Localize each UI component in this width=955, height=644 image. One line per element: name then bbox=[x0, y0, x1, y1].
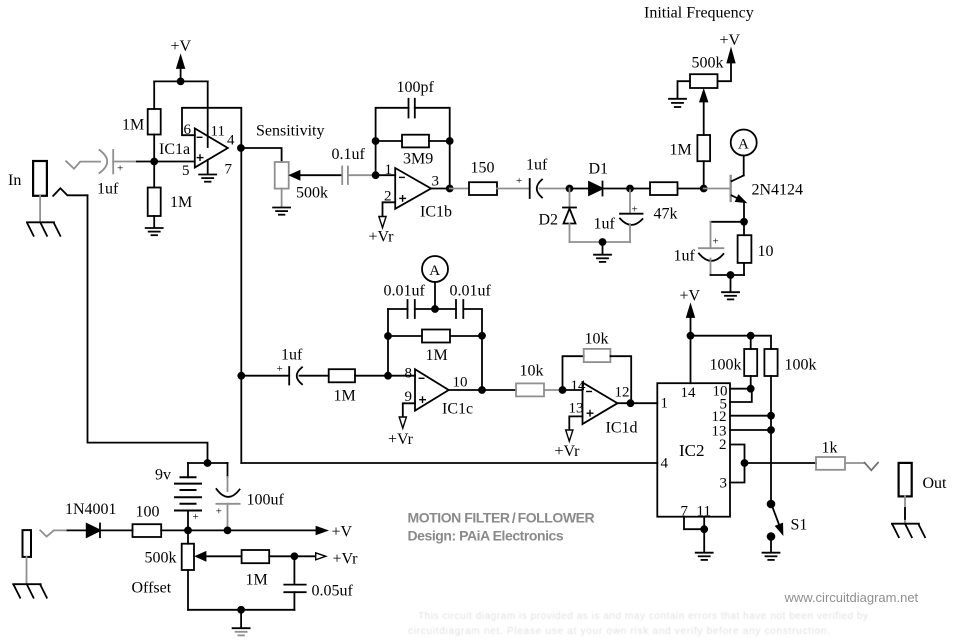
wire power jack stem bbox=[26, 557, 28, 584]
svg-text:+Vr: +Vr bbox=[388, 431, 414, 448]
wire plug hook In bbox=[66, 161, 100, 168]
svg-text:+Vr: +Vr bbox=[333, 551, 359, 568]
svg-text:14: 14 bbox=[571, 378, 587, 394]
svg-text:4: 4 bbox=[661, 456, 669, 472]
svg-text:100uf: 100uf bbox=[247, 492, 285, 509]
svg-text:500k: 500k bbox=[145, 550, 177, 567]
svg-text:Sensitivity: Sensitivity bbox=[256, 123, 324, 140]
wire 1M to input node bbox=[153, 135, 155, 162]
wire IC1c feedback left riser bbox=[387, 309, 389, 376]
op-amp IC1a bbox=[159, 122, 235, 179]
wire feedback right to output bbox=[449, 141, 451, 189]
svg-text:Initial Frequency: Initial Frequency bbox=[644, 5, 754, 22]
svg-text:IC1c: IC1c bbox=[442, 401, 473, 418]
svg-text:MOTION FILTER / FOLLOWER: MOTION FILTER / FOLLOWER bbox=[408, 510, 595, 526]
node In-label bbox=[8, 172, 21, 189]
svg-text:4: 4 bbox=[227, 133, 235, 149]
ground chassis power bbox=[13, 584, 47, 598]
node D2 junction bbox=[567, 186, 573, 192]
node offset ground bbox=[238, 607, 244, 613]
wiper arrow sensitivity bbox=[291, 171, 341, 179]
wire 150 to 1uf bbox=[497, 188, 530, 190]
wire pin7 to ground bbox=[207, 160, 209, 174]
ground earth IC1a pin7 bbox=[199, 175, 216, 182]
node 100uf bottom bbox=[225, 527, 231, 533]
potentiometer R 500k Offset bbox=[132, 530, 195, 609]
svg-text:3M9: 3M9 bbox=[403, 151, 433, 168]
wire jack stem bbox=[39, 196, 41, 222]
svg-text:+V: +V bbox=[680, 287, 701, 304]
svg-text:This circuit diagram is provid: This circuit diagram is provided as is a… bbox=[418, 611, 868, 622]
resistor R 1M bottom bbox=[148, 162, 193, 217]
jack J1 In bbox=[33, 161, 47, 196]
meter A filter bbox=[422, 256, 448, 309]
arrow +Vr reference bbox=[294, 551, 358, 568]
resistor R 10k series bbox=[516, 363, 563, 397]
capacitor C 0.05uf bbox=[284, 556, 353, 610]
resistor R 100 bbox=[133, 503, 189, 537]
svg-text:2N4124: 2N4124 bbox=[752, 182, 804, 199]
node ghost artifacts bbox=[408, 611, 868, 637]
resistor R 3M9 bbox=[376, 135, 450, 168]
node feedback right bbox=[479, 333, 485, 339]
svg-text:Design: PAiA Electronics: Design: PAiA Electronics bbox=[408, 528, 564, 544]
capacitor C 1uf coupling bbox=[516, 157, 570, 199]
svg-text:1uf: 1uf bbox=[281, 347, 303, 364]
wiper arrow initial frequency bbox=[700, 91, 707, 135]
wire pin13 to Vr arrow bbox=[569, 416, 582, 429]
IC U2 IC2 bbox=[657, 383, 730, 519]
wire offset bottom rail bbox=[188, 609, 294, 611]
wire pin2 to Vr arrow bbox=[383, 202, 396, 216]
svg-text:10k: 10k bbox=[585, 330, 609, 347]
node pin11 ground junction bbox=[701, 526, 707, 532]
node 3M9 right bbox=[447, 138, 453, 144]
ground earth sensitivity bbox=[273, 208, 290, 215]
svg-text:+: + bbox=[193, 511, 199, 523]
svg-text:1k: 1k bbox=[822, 439, 838, 456]
svg-text:11: 11 bbox=[211, 124, 225, 140]
svg-text:+: + bbox=[216, 506, 222, 518]
node IC1b input bbox=[373, 172, 379, 178]
wire pin11 +V drop bbox=[207, 81, 209, 147]
op-amp IC1b bbox=[384, 162, 452, 220]
diode D3 1N4001 bbox=[65, 501, 133, 537]
resistor R 1k bbox=[816, 439, 865, 470]
node meter tap bbox=[432, 306, 438, 312]
svg-text:1M: 1M bbox=[334, 388, 356, 405]
resistor R 100k left bbox=[710, 336, 758, 389]
svg-text:500k: 500k bbox=[296, 185, 328, 202]
svg-text:S1: S1 bbox=[791, 517, 808, 534]
svg-text:1N4001: 1N4001 bbox=[65, 501, 117, 518]
node IC1d output bbox=[628, 400, 634, 406]
capacitor C 0.01uf left bbox=[384, 283, 436, 319]
wire D2 bottom rail bbox=[570, 241, 631, 243]
svg-text:500k: 500k bbox=[692, 54, 724, 71]
node IC1b output bbox=[447, 186, 453, 192]
op-amp IC1c bbox=[405, 365, 474, 417]
svg-text:100pf: 100pf bbox=[397, 79, 435, 96]
node +V rail bbox=[178, 78, 184, 84]
arrow +Vr IC1c bbox=[388, 417, 414, 448]
jack J3 power input bbox=[23, 530, 32, 557]
wire cap to IC1a input bbox=[113, 161, 195, 163]
svg-text:1uf: 1uf bbox=[594, 216, 616, 233]
potentiometer R 500k Sensitivity bbox=[256, 123, 328, 202]
capacitor C 0.01uf right bbox=[435, 283, 492, 391]
svg-text:10k: 10k bbox=[520, 363, 544, 380]
node IC1c input bbox=[385, 373, 391, 379]
svg-text:IC1d: IC1d bbox=[606, 419, 638, 436]
svg-text:1M: 1M bbox=[426, 347, 448, 364]
svg-text:IC1a: IC1a bbox=[159, 141, 190, 158]
svg-text:14: 14 bbox=[681, 385, 697, 401]
wire out jack stem bbox=[904, 496, 906, 523]
wire pin5 stub bbox=[730, 390, 752, 403]
resistor R 1M top bbox=[122, 109, 161, 135]
node ground D2 rail bbox=[600, 239, 606, 245]
svg-text:1M: 1M bbox=[670, 142, 692, 159]
battery B1 9v bbox=[155, 463, 201, 530]
resistor R 47k bbox=[630, 182, 704, 222]
wire IC1a feedback loop bbox=[182, 108, 241, 148]
svg-text:47k: 47k bbox=[654, 206, 678, 223]
node pin13 junction bbox=[768, 427, 774, 433]
node IC1a output bbox=[238, 145, 244, 151]
svg-text:1: 1 bbox=[661, 396, 669, 412]
svg-text:100k: 100k bbox=[785, 357, 817, 374]
wire pin9 to Vr arrow bbox=[403, 403, 415, 416]
node IC1c output bbox=[479, 387, 485, 393]
svg-text:1M: 1M bbox=[170, 194, 192, 211]
wire left bus IC1a output down bbox=[240, 148, 242, 463]
ground chassis In bbox=[27, 222, 60, 236]
wire battery top rail bbox=[188, 462, 228, 464]
node IC1a input junction bbox=[151, 159, 157, 165]
wire pin10 stub bbox=[730, 388, 751, 390]
capacitor C 1uf input bbox=[97, 150, 123, 198]
node 3M9 left bbox=[373, 138, 379, 144]
svg-text:A: A bbox=[738, 136, 749, 152]
wire input node to pin1 bbox=[376, 174, 396, 176]
svg-text:0.05uf: 0.05uf bbox=[312, 583, 354, 600]
ground earth D2 rail bbox=[594, 242, 611, 262]
capacitor C 1uf IC1c input bbox=[241, 347, 328, 385]
svg-text:0.01uf: 0.01uf bbox=[450, 283, 492, 300]
node output junction bbox=[742, 460, 748, 466]
svg-text:circuitdiagram net. Please use: circuitdiagram net. Please use at your o… bbox=[408, 626, 830, 637]
ground earth offset bbox=[233, 610, 250, 636]
svg-text:0.01uf: 0.01uf bbox=[384, 283, 426, 300]
svg-text:+V: +V bbox=[171, 38, 192, 55]
wire output to sensitivity pot bbox=[241, 148, 282, 162]
ground earth emitter bbox=[722, 275, 739, 299]
wire pin12 stub bbox=[730, 415, 771, 417]
node switch power rail bbox=[205, 460, 211, 466]
wire pin13 stub bbox=[730, 429, 771, 431]
wire input node to pin14 bbox=[563, 389, 583, 391]
node left bus tap IC1c bbox=[238, 373, 244, 379]
svg-text:3: 3 bbox=[720, 476, 728, 492]
svg-text:+Vr: +Vr bbox=[555, 443, 581, 460]
wire pin14 stub bbox=[690, 336, 692, 384]
capacitor C 100uf bbox=[216, 463, 285, 530]
wire left bus down to battery bbox=[88, 195, 208, 463]
wire input node to pin8 bbox=[388, 375, 415, 377]
wire IC1c output bbox=[449, 389, 516, 391]
node watermark bbox=[784, 590, 919, 605]
wire IC1d output to IC2 pin1 bbox=[618, 402, 658, 404]
svg-text:+V: +V bbox=[720, 32, 741, 49]
power +V initial frequency bbox=[718, 32, 741, 81]
wire emitter cap bottom rail bbox=[711, 274, 745, 276]
svg-text:1M: 1M bbox=[246, 572, 268, 589]
svg-text:+: + bbox=[277, 363, 283, 375]
svg-text:13: 13 bbox=[569, 401, 584, 417]
diode D2 bbox=[539, 189, 577, 243]
svg-text:IC1b: IC1b bbox=[420, 204, 452, 221]
svg-text:100k: 100k bbox=[710, 357, 742, 374]
node battery minus bbox=[185, 527, 191, 533]
svg-text:+: + bbox=[713, 236, 719, 248]
wire +V rail to 100k pair bbox=[691, 336, 772, 349]
svg-text:Out: Out bbox=[923, 475, 948, 492]
transistor Q1 2N4124 bbox=[704, 156, 803, 222]
ground earth initial frequency bbox=[669, 99, 686, 107]
wire output to 150 bbox=[431, 188, 469, 190]
svg-text:1uf: 1uf bbox=[97, 181, 119, 198]
svg-text:10: 10 bbox=[453, 375, 468, 391]
resistor R 1M IC1c feedback bbox=[388, 330, 482, 365]
power +V arrow main bbox=[188, 524, 353, 541]
wire bus to IC2 pin4 bbox=[241, 462, 657, 464]
svg-text:D1: D1 bbox=[589, 161, 609, 178]
capacitor C 1uf detector bbox=[594, 189, 643, 243]
node title text bbox=[408, 510, 595, 544]
wire plug hook Out bbox=[865, 463, 878, 471]
node 100k rail bbox=[748, 333, 754, 339]
svg-text:1uf: 1uf bbox=[674, 248, 696, 265]
resistor R 150 bbox=[469, 160, 497, 196]
svg-text:Offset: Offset bbox=[132, 580, 172, 597]
capacitor C 0.1uf bbox=[332, 146, 376, 184]
arrow +Vr IC1d bbox=[555, 430, 581, 460]
capacitor C 100pf bbox=[376, 79, 450, 175]
svg-text:+Vr: +Vr bbox=[369, 229, 395, 246]
svg-text:IC2: IC2 bbox=[679, 441, 705, 460]
meter A collector bbox=[731, 130, 757, 156]
svg-text:7: 7 bbox=[225, 162, 233, 178]
svg-text:150: 150 bbox=[471, 160, 495, 177]
node Vr junction bbox=[291, 553, 297, 559]
wire pin3 stub bbox=[730, 463, 745, 483]
wire switch hook In bbox=[53, 188, 87, 196]
svg-text:www.circuitdiagram.net: www.circuitdiagram.net bbox=[784, 590, 919, 605]
wire pin2 stub bbox=[730, 445, 745, 464]
power +V symbol IC1a bbox=[171, 38, 192, 82]
resistor R 10 bbox=[738, 222, 774, 275]
svg-text:12: 12 bbox=[615, 385, 630, 401]
svg-text:1uf: 1uf bbox=[526, 157, 548, 174]
svg-text:100: 100 bbox=[136, 503, 160, 520]
svg-text:+: + bbox=[516, 175, 522, 187]
ground chassis Out bbox=[892, 524, 925, 538]
ground earth IC2 bbox=[696, 529, 713, 560]
svg-text:+: + bbox=[117, 163, 123, 175]
jack J2 Out bbox=[899, 463, 947, 497]
node +V IC2 bbox=[688, 333, 694, 339]
svg-text:A: A bbox=[429, 263, 440, 279]
svg-text:10: 10 bbox=[758, 243, 774, 260]
svg-text:0.1uf: 0.1uf bbox=[332, 146, 366, 163]
resistor R 10k feedback bbox=[563, 330, 632, 403]
svg-text:9v: 9v bbox=[155, 467, 171, 484]
svg-text:D2: D2 bbox=[539, 212, 559, 229]
wire plug hook power bbox=[40, 530, 67, 536]
svg-text:In: In bbox=[8, 172, 21, 189]
node pin12 junction bbox=[768, 413, 774, 419]
svg-text:+V: +V bbox=[332, 524, 353, 541]
node 1M feedback left bbox=[385, 333, 391, 339]
resistor R 1M base bbox=[670, 135, 711, 189]
resistor R 1M IC1c input bbox=[329, 369, 388, 404]
wire rail to R 1M top bbox=[153, 81, 155, 109]
node base junction bbox=[701, 186, 707, 192]
svg-text:8: 8 bbox=[405, 365, 413, 381]
op-amp IC1d bbox=[569, 378, 638, 436]
resistor R 1M offset bbox=[242, 550, 295, 589]
svg-text:5: 5 bbox=[182, 163, 190, 179]
svg-text:2: 2 bbox=[719, 437, 727, 453]
svg-text:3: 3 bbox=[432, 174, 440, 190]
wire pot ground stem bbox=[281, 189, 283, 207]
node emitter junction bbox=[741, 219, 747, 225]
wire pin7 pin11 to ground bbox=[684, 517, 704, 530]
ground earth below 1M bbox=[146, 216, 163, 235]
diode D1 bbox=[570, 161, 631, 196]
power +V IC2 bbox=[680, 287, 701, 335]
node emitter ground rail bbox=[728, 272, 734, 278]
wiper arrow offset bbox=[196, 552, 241, 560]
resistor R 100k right bbox=[764, 349, 816, 501]
potentiometer R 500k Initial Frequency bbox=[644, 5, 754, 89]
svg-text:1M: 1M bbox=[122, 117, 144, 134]
wire output to 1k bbox=[745, 462, 817, 464]
switch S1 bbox=[768, 501, 808, 552]
arrow +Vr IC1b bbox=[369, 217, 395, 246]
node pin10 junction bbox=[748, 386, 754, 392]
ground earth S1 bbox=[763, 553, 780, 560]
node IC1d input bbox=[560, 387, 566, 393]
node 47k junction bbox=[627, 186, 633, 192]
wire +V rail IC1a bbox=[154, 80, 208, 82]
capacitor C 1uf emitter bbox=[674, 222, 745, 275]
wire pot left to ground bbox=[678, 81, 691, 98]
